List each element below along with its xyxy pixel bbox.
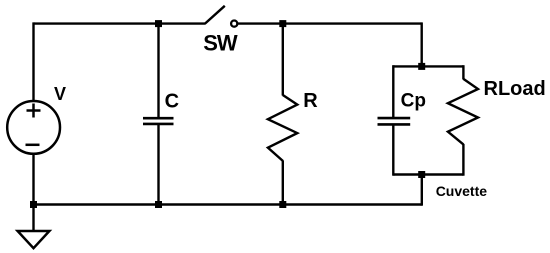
wire top rail right (switch circle to cuvette corner)	[238, 22, 422, 24]
wire cuvette feed vertical	[421, 22, 423, 66]
node bottom rail left	[30, 201, 37, 208]
wire top rail left (source to switch contact)	[34, 22, 206, 24]
wire cuvette right upper	[462, 65, 464, 79]
voltage source minus sign	[26, 144, 40, 147]
wire C branch upper	[157, 24, 159, 118]
switch SW right contact circle	[231, 21, 237, 27]
wire C branch lower	[157, 125, 159, 205]
capacitor Cp bottom plate	[378, 123, 411, 126]
switch SW lever	[205, 6, 225, 24]
svg-text:V: V	[54, 84, 66, 104]
node bottom rail at C branch	[155, 201, 162, 208]
voltage source plus sign	[27, 104, 41, 118]
svg-text:C: C	[165, 91, 179, 113]
wire cuvette bottom node to bottom rail	[421, 175, 423, 206]
node on top rail at R branch	[279, 20, 286, 27]
node on top rail at C branch	[155, 20, 162, 27]
wire R branch lower	[282, 160, 284, 204]
voltage source V circle	[7, 101, 60, 154]
svg-text:RLoad: RLoad	[484, 78, 546, 100]
wire cuvette top	[393, 65, 463, 67]
wire bottom rail	[34, 203, 422, 205]
wire from bottom-left node to ground	[32, 205, 34, 232]
wire left vertical above source V	[32, 22, 34, 100]
capacitor Cp top plate	[378, 117, 411, 120]
node cuvette bottom	[418, 171, 425, 178]
svg-text:Cuvette: Cuvette	[436, 183, 488, 199]
wire left vertical below source V	[32, 154, 34, 205]
wire cuvette bottom	[393, 173, 463, 175]
ground symbol triangle	[18, 231, 50, 248]
capacitor C bottom plate	[143, 123, 174, 126]
resistor R zigzag	[268, 95, 297, 161]
node bottom rail at R branch	[279, 201, 286, 208]
svg-text:Cp: Cp	[401, 90, 426, 111]
wire R branch upper	[282, 24, 284, 96]
resistor RLoad zigzag	[448, 79, 478, 144]
capacitor C top plate	[143, 117, 174, 120]
wire cuvette right lower	[462, 144, 464, 176]
svg-text:SW: SW	[203, 30, 238, 55]
node cuvette top	[418, 63, 425, 70]
wire cuvette left lower	[392, 125, 394, 175]
svg-text:R: R	[303, 90, 318, 112]
wire cuvette left upper	[392, 65, 394, 117]
